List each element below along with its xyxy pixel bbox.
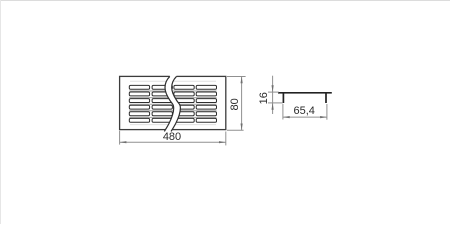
louvre line 3: [129, 103, 216, 105]
louvre line 1: [129, 90, 216, 92]
louvre line 2: [129, 97, 216, 99]
slot row 4: [129, 105, 216, 109]
slot row 2: [129, 92, 216, 96]
arrow 16 upper: [272, 85, 274, 92]
break line left: [164, 76, 173, 131]
extension line 16 bottom: [268, 102, 283, 104]
arrow 480 right: [219, 141, 226, 143]
dimension line 16: [272, 76, 274, 114]
extension line 65,4 right: [326, 104, 328, 120]
louvre line 4: [129, 110, 216, 112]
dimension line 80: [241, 76, 243, 130]
svg-text:480: 480: [163, 131, 181, 143]
arrow 16 lower: [272, 103, 274, 110]
louvre line 5: [129, 116, 216, 118]
page top border: [0, 0, 450, 1]
slot row 3: [129, 99, 216, 103]
profile top plate: [278, 92, 332, 94]
extension line 16 top: [268, 91, 279, 93]
louvre remnant below bottom row: [130, 124, 216, 126]
arrow 480 left: [120, 141, 127, 143]
arrow 65,4 right: [320, 116, 327, 118]
break gap white band: [164, 75, 180, 132]
dimension line 65,4: [283, 116, 327, 118]
louvre remnant above top row: [130, 80, 216, 82]
arrow 80 bottom: [241, 124, 243, 131]
svg-text:16: 16: [258, 92, 270, 104]
extension line 65,4 left: [282, 104, 284, 120]
extension line 80 top: [227, 76, 246, 78]
arrow 80 top: [241, 76, 243, 83]
svg-text:65,4: 65,4: [293, 105, 314, 117]
arrow 65,4 left: [283, 116, 290, 118]
slot row 5: [129, 112, 216, 116]
break line right: [171, 76, 180, 131]
profile left leg: [283, 93, 285, 103]
extension line 480 right: [225, 132, 227, 146]
grille front view outline: [120, 76, 226, 129]
extension line 480 left: [119, 131, 121, 145]
page left border: [0, 0, 1, 224]
slot row 1: [129, 85, 216, 89]
profile right leg: [325, 93, 327, 103]
slot row 6: [129, 118, 216, 122]
dimension line 480: [120, 141, 226, 143]
extension line 80 bottom: [227, 129, 244, 131]
svg-text:80: 80: [229, 98, 241, 110]
